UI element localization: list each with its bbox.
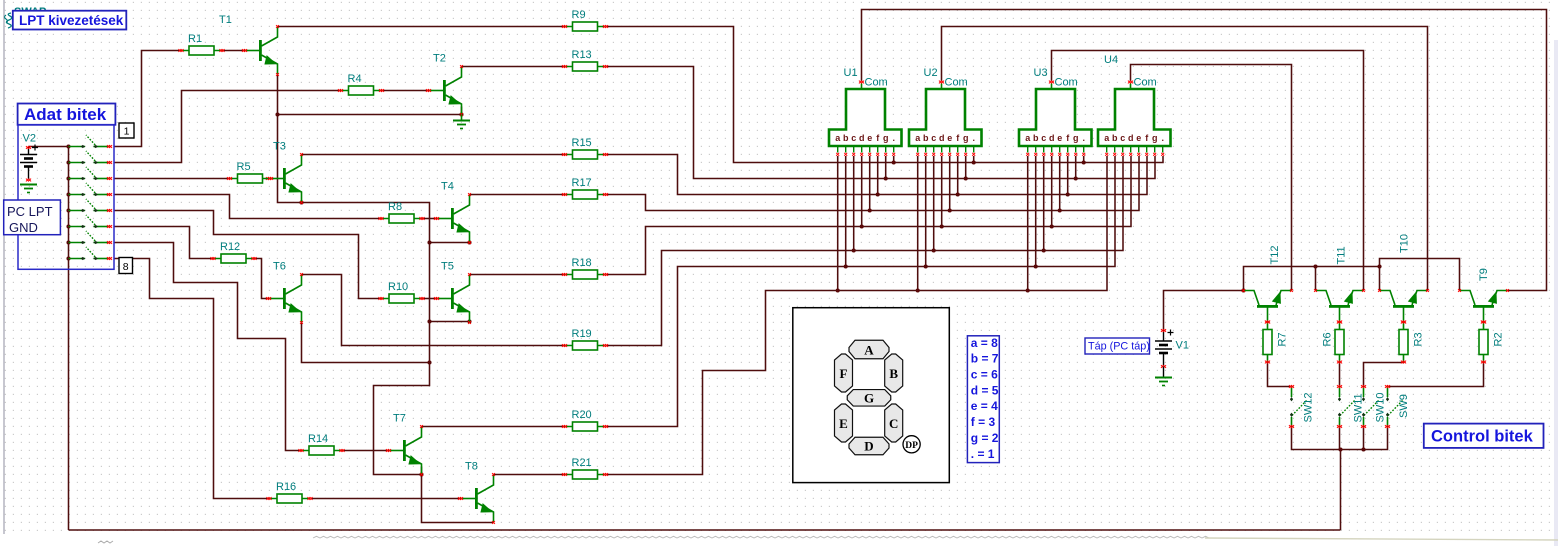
wire T4 emitter to rail [430,242,470,244]
wire T6 collector to R19 [302,275,565,346]
label box Adat bitek [18,104,116,125]
resistor R9 [562,9,608,31]
resistor R10 [378,281,424,303]
svg-text:R1: R1 [188,33,202,45]
svg-text:T11: T11 [1336,246,1348,264]
wire SW11 to bus [1339,427,1341,450]
svg-text:c = 6: c = 6 [971,368,998,382]
resistor R13 [562,49,608,71]
segment A [849,340,889,359]
svg-text:.: . [1082,133,1085,143]
switch SW9 [1385,385,1410,428]
switch SW10 [1361,385,1387,428]
svg-text:G: G [864,391,874,406]
svg-text:V2: V2 [23,133,36,145]
junction T3 emitter [299,200,303,204]
wire SW10 to bus [1363,427,1365,450]
segment G [847,390,891,407]
segment E [835,404,853,442]
wire T2 emitter stub to ground [461,107,463,115]
wire T8 collector to R21 [494,474,566,476]
wire rail riser to switch bus [1340,450,1342,531]
junction T2 emitter [459,112,463,116]
switch SW11 [1337,385,1365,428]
wire data bit 2 to R4 [114,91,341,163]
svg-text:R10: R10 [388,281,408,293]
wire R13 to segment bus g [606,67,1155,179]
svg-text:T4: T4 [441,181,454,193]
junction T1 emitter tie [275,112,279,116]
svg-text:A: A [864,343,874,358]
wires U3 segment pin drops [1028,156,1084,291]
svg-text:T3: T3 [273,141,286,153]
wire R17 to segment bus e [606,156,1139,211]
svg-text:c: c [931,133,936,143]
svg-text:Adat bitek: Adat bitek [24,105,107,124]
wire V1 to T12 collector [1164,291,1244,331]
svg-text:b = 7: b = 7 [971,352,999,366]
wire U4 Com to T12 emitter [1131,65,1292,291]
sheet right margin [1554,40,1558,546]
svg-text:c: c [1041,133,1046,143]
junction SW10 at switch bus [1361,447,1365,451]
svg-text:T2: T2 [433,53,446,65]
resistor R6 [1322,321,1345,364]
svg-text:R20: R20 [572,409,592,421]
segment F [835,354,853,392]
resistor R15 [562,137,608,159]
svg-text:c: c [851,133,856,143]
svg-text:F: F [840,366,848,381]
ground V2 [20,185,37,193]
svg-text:Com: Com [945,77,968,89]
wires U1 segment pin drops [838,156,894,291]
svg-text:D: D [864,439,873,454]
wire T10 collector riser and rail to T9 [1380,259,1460,291]
svg-text:R21: R21 [572,457,592,469]
wire R9 to segment bus dp [606,27,1163,163]
resistor R12 [210,241,256,263]
wire R2 to SW9 [1388,362,1484,387]
transistor T6 [266,261,303,324]
svg-text:R4: R4 [348,73,362,85]
junction T5 emitter [427,319,431,323]
wire R14 to T7 base [342,450,389,452]
svg-text:d: d [1049,133,1055,143]
display U1 [829,67,902,156]
svg-text:R8: R8 [388,201,402,213]
svg-text:b: b [1112,133,1118,143]
wires U2 segment pin drops [918,156,974,291]
wire R1 to T1 base [222,50,245,52]
segment C [885,404,903,442]
svg-text:PC LPT: PC LPT [7,204,53,219]
wire data bit 4 to R8 [114,195,381,219]
junction T4 emitter [427,240,431,244]
wire R3 to SW10 [1364,362,1404,387]
wire R16 to T8 base [311,498,461,500]
resistor R21 [562,457,608,479]
wire switch bus [1292,427,1388,450]
wire U3 Com to T11 emitter [1052,51,1364,291]
switch data bit 1 [69,135,113,148]
svg-text:U2: U2 [924,67,938,79]
transistor T3 [266,141,303,204]
switch data bit 8 [69,247,113,260]
resistor R5 [227,161,273,183]
wire T11 collector riser [1315,267,1317,291]
svg-text:R13: R13 [572,49,592,61]
svg-text:e: e [1136,133,1141,143]
svg-text:8: 8 [123,261,129,273]
svg-text:DP: DP [905,441,918,451]
svg-text:. = 1: . = 1 [971,447,995,461]
svg-text:a = 8: a = 8 [971,336,998,350]
transistor T1 [219,14,279,76]
junction T10 collector [1377,264,1381,268]
switch data bit 6 [69,215,113,228]
svg-text:b: b [1033,133,1039,143]
wire emitter tie T1/T2 [278,114,462,116]
svg-text:f = 3: f = 3 [971,415,996,429]
wire data bit 1 to R1 [114,51,181,147]
svg-text:GND: GND [9,220,38,235]
svg-text:R9: R9 [572,9,586,21]
svg-text:T6: T6 [273,261,286,273]
resistor R18 [562,257,608,279]
svg-text:T7: T7 [393,413,406,425]
wire T1 emitter down to T3 emitter [278,75,302,203]
wire T1 collector to R9 [278,26,565,28]
svg-text:g: g [963,133,969,143]
display U2 [909,67,982,156]
switch data bit 2 [69,151,113,164]
wire data bit 6 to R12 [114,227,213,259]
pin 8 marker box [119,258,133,274]
svg-text:d: d [939,133,945,143]
label box Tap PC tap [1085,338,1150,354]
resistor R3 [1399,321,1425,364]
wire T4 collector to R17 [470,194,565,196]
svg-text:R14: R14 [308,433,328,445]
wire R15 to segment bus f [606,155,1147,195]
wire R10 to T5 base [422,298,437,300]
svg-text:T9: T9 [1478,268,1490,281]
junction dots segment buses [836,160,1086,292]
svg-text:.: . [1161,133,1164,143]
svg-text:g: g [1152,133,1158,143]
wire T5 collector to R18 [470,274,565,276]
resistor R20 [562,409,608,431]
resistor R19 [562,328,608,350]
svg-text:E: E [839,416,848,431]
wire R19 to segment bus c [606,156,1123,346]
svg-text:SW9: SW9 [1398,394,1410,418]
svg-text:R17: R17 [572,177,592,189]
wire T5 emitter to rail [430,321,470,323]
svg-text:e: e [867,133,872,143]
transistor T7 [386,413,423,476]
junction T11 collector [1313,264,1317,268]
wire T3 emitter rail to vertical [302,203,430,475]
svg-text:V1: V1 [1176,340,1189,352]
resistor R16 [266,481,312,503]
svg-text:d: d [859,133,865,143]
resistor R4 [338,73,384,95]
svg-text:R3: R3 [1413,332,1425,346]
svg-text:d = 5: d = 5 [971,383,999,397]
wire U1 Com to T9 emitter [862,10,1547,291]
svg-text:b: b [843,133,849,143]
wire R8 to T4 base [422,218,437,220]
wire R18 to segment bus d [606,156,1131,275]
svg-text:B: B [889,366,898,381]
switch SW12 [1289,385,1315,428]
battery V1 [1155,329,1189,368]
svg-text:T12: T12 [1269,246,1281,265]
svg-text:e: e [1057,133,1062,143]
resistor R7 [1263,321,1289,364]
transistor T4 [434,181,471,244]
svg-text:U4: U4 [1104,54,1118,66]
svg-text:C: C [889,416,898,431]
page edge line [3,0,5,534]
segment B [885,354,903,392]
label box LPT kivezetesek [13,11,127,30]
wire bottom ground rail [69,529,1341,531]
transistor T8 [458,461,495,524]
svg-text:e = 4: e = 4 [971,399,998,413]
wire R12 to T6 base [254,259,269,299]
svg-text:R5: R5 [237,161,251,173]
resistor R14 [298,433,344,455]
label box PC LPT GND [4,200,61,235]
svg-text:T5: T5 [441,261,454,273]
wire R21 to segment bus a [606,156,1107,475]
junction dots switch column [66,144,70,260]
wire T7 collector to R20 [422,426,566,428]
svg-text:R7: R7 [1277,332,1289,346]
transistor T2 [426,53,463,116]
segment DP [903,436,920,453]
ground V1 [1155,367,1172,386]
battery V2 [20,133,38,182]
resistor R8 [378,201,424,223]
wire data bit 7 to R14 [114,243,301,451]
wire R6 to SW11 [1339,362,1341,387]
svg-text:Com: Com [865,77,888,89]
transistor T5 [434,261,471,324]
segment legend figure box [793,308,950,483]
svg-text:R6: R6 [1322,332,1334,346]
bottom window edge zigzag [98,536,1558,543]
wire data bit 8 to R16 [114,259,269,499]
svg-text:T1: T1 [219,14,232,26]
wire data bit 3 to R5 [114,178,230,180]
wire T2 collector to R13 [462,66,565,68]
wire R4 to T2 base [382,90,429,92]
svg-text:LPT kivezetések: LPT kivezetések [19,13,124,28]
svg-text:d: d [1128,133,1134,143]
svg-text:g = 2: g = 2 [971,431,999,445]
ground T2 emitter [453,115,470,129]
svg-text:R2: R2 [1493,332,1505,346]
svg-text:SW12: SW12 [1303,393,1315,423]
transistor T11 [1314,246,1365,323]
switch data bit 7 [69,231,113,244]
resistor R2 [1479,321,1505,364]
svg-text:e: e [947,133,952,143]
junction V1 feed at T12 [1241,288,1245,292]
svg-text:g: g [1073,133,1079,143]
wire V2 battery to switch column [29,146,69,148]
wire U2 Com to T10 emitter [942,27,1428,291]
junction T7 emitter [419,472,423,476]
svg-text:SW10: SW10 [1375,393,1387,423]
resistor R1 [178,33,224,55]
switch data bit 4 [69,183,113,196]
wire collector rail T12-T11-T10 [1244,267,1380,291]
svg-text:R18: R18 [572,257,592,269]
wire R7 to SW12 [1268,362,1292,387]
svg-text:Com: Com [1134,77,1157,89]
svg-text:R16: R16 [276,481,296,493]
svg-text:.: . [972,133,975,143]
switch data bit 3 [69,167,113,180]
resistor R17 [562,177,608,199]
overlapped component marks [5,6,47,28]
svg-text:R15: R15 [572,137,592,149]
svg-text:g: g [883,133,889,143]
svg-text:U1: U1 [844,67,858,79]
wire T3 collector to R15 [302,154,565,156]
wire data bit 5 to R10 [114,211,381,299]
wire switch common column down to bottom rail [68,147,70,531]
segment code legend box [967,336,999,463]
svg-text:R19: R19 [572,328,592,340]
svg-text:T8: T8 [465,461,478,473]
transistor T9 [1458,268,1509,323]
wire T6 emitter to rail [302,322,430,363]
pin 1 marker box [119,123,134,138]
wire R20 to segment bus b [606,156,1115,427]
svg-text:U3: U3 [1034,67,1048,79]
svg-text:Control bitek: Control bitek [1431,428,1534,446]
label box Control bitek [1424,424,1544,448]
svg-text:b: b [923,133,929,143]
svg-text:.: . [892,133,895,143]
junction T6 emitter rail [427,360,431,364]
wire T7 emitter junction down to T8 emitter [422,467,494,523]
svg-text:c: c [1120,133,1125,143]
svg-text:Com: Com [1055,77,1078,89]
svg-text:1: 1 [124,126,130,138]
svg-text:Táp (PC táp): Táp (PC táp) [1088,341,1150,353]
transistor T10 [1378,234,1429,323]
svg-text:T10: T10 [1399,234,1411,253]
LPT connector box [18,125,114,269]
display U3 [1019,67,1092,156]
segment D [849,437,889,455]
transistor T12 [1242,246,1293,324]
switch data bit 5 [69,199,113,212]
junction ground riser at switch bus [1338,447,1342,451]
svg-text:R12: R12 [220,241,240,253]
display U4 [1098,54,1171,156]
